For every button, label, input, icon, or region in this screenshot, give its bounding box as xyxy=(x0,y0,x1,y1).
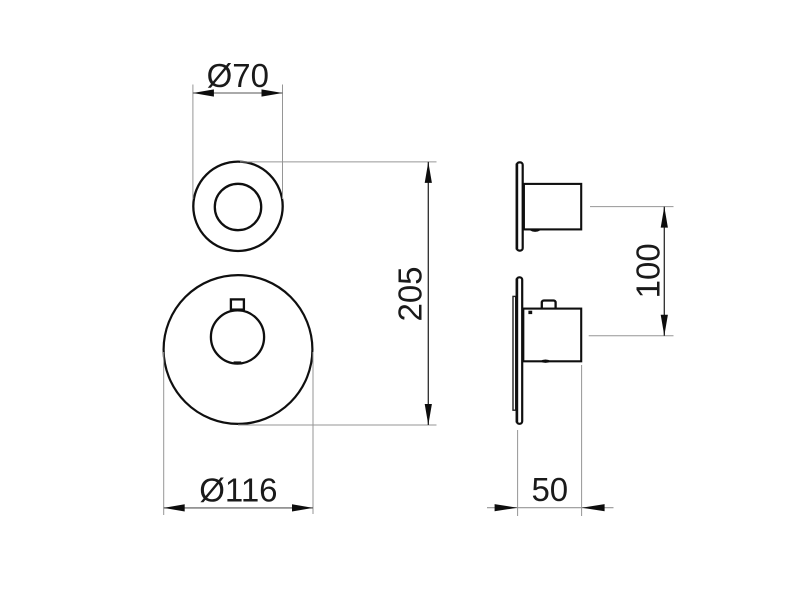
front view: lower thermostat knob circle xyxy=(211,310,264,363)
dimension 100: top extension line xyxy=(590,206,674,208)
svg-text:100: 100 xyxy=(630,243,667,298)
dimension 100: vertical dimension line xyxy=(663,207,665,336)
svg-text:Ø116: Ø116 xyxy=(199,471,277,508)
dimension Ø70: right arrowhead xyxy=(262,89,283,96)
dimension 50: left arrowhead (outside, pointing right) xyxy=(495,504,518,511)
side view upper unit: handle cylinder xyxy=(524,184,581,230)
dimension Ø116: left arrowhead xyxy=(164,504,185,511)
dimension 50: right arrowhead (outside, pointing left) xyxy=(582,504,605,511)
dimension 100: bottom extension line xyxy=(589,335,674,337)
front view: lower trim rosette outer circle Ø116 xyxy=(164,275,313,424)
dimension Ø116: right arrowhead xyxy=(292,504,313,511)
dimension 50: dimension line xyxy=(487,507,614,509)
dimension 100: top arrowhead xyxy=(661,207,668,228)
side view upper unit: plate thick left edge xyxy=(516,164,519,250)
side view lower unit: lens mark on bottom edge xyxy=(540,360,551,363)
svg-text:50: 50 xyxy=(531,471,568,508)
side view lower unit: back seal strip xyxy=(513,296,516,410)
dimension 205: top arrowhead xyxy=(425,162,432,183)
dimension Ø116: right extension line xyxy=(312,352,314,514)
dimension Ø116: dimension line xyxy=(164,507,313,509)
dimension 100: bottom arrowhead xyxy=(661,315,668,336)
dimension 50: right extension line xyxy=(581,365,583,516)
front view: knob bottom tick mark xyxy=(234,361,242,364)
side view lower unit: rosette plate xyxy=(517,277,522,424)
dimension 50: left extension line xyxy=(517,430,519,516)
side view lower unit: knob cylinder xyxy=(523,309,581,362)
front view: knob index tab xyxy=(231,299,244,309)
side view lower unit: plate thick left edge xyxy=(516,279,519,423)
dimension Ø70: dimension line xyxy=(193,92,283,94)
dimension 205: vertical dimension line xyxy=(427,162,429,425)
dimension Ø70: left extension line xyxy=(192,85,194,200)
dimension Ø116: left extension line xyxy=(163,352,165,515)
dimension Ø70: left arrowhead xyxy=(193,89,214,96)
dimension 205: bottom extension line xyxy=(238,424,437,426)
svg-text:205: 205 xyxy=(392,266,429,321)
side view lower unit: small square mark xyxy=(528,311,532,314)
front view: upper handle inner circle xyxy=(215,184,261,230)
dimension 205: top extension line xyxy=(240,161,437,163)
side view lower unit: knob index tab xyxy=(542,301,556,310)
side view upper unit: lens mark on bottom edge xyxy=(530,229,541,232)
svg-text:Ø70: Ø70 xyxy=(207,57,269,94)
front view: upper trim rosette outer circle Ø70 xyxy=(193,162,282,251)
side view upper unit: rosette plate xyxy=(517,162,523,250)
dimension Ø70: right extension line xyxy=(282,85,284,200)
dimension 205: bottom arrowhead xyxy=(425,404,432,425)
